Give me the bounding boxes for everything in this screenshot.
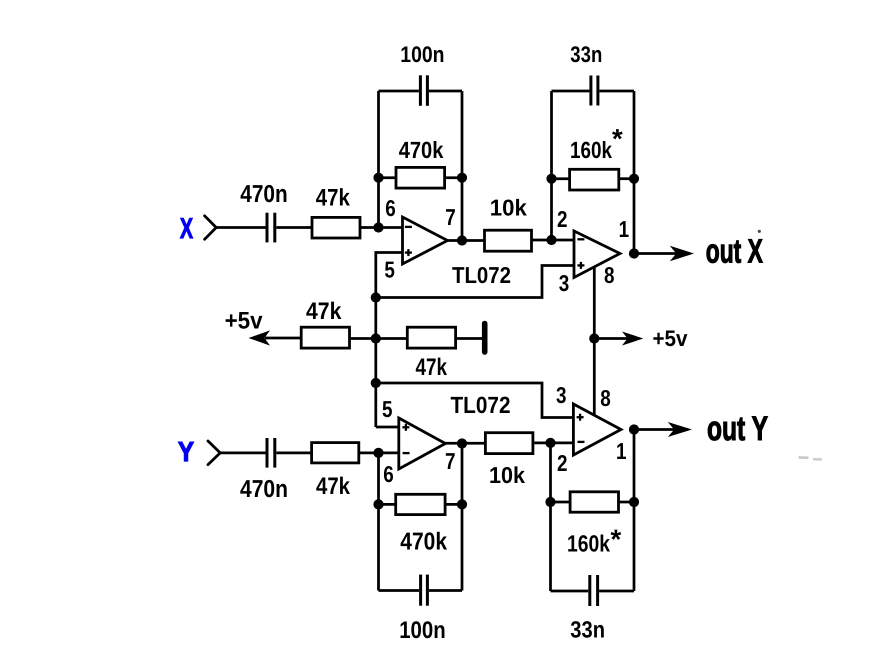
wire C 470n to R 47k (Y): [276, 452, 311, 455]
svg-text:Y: Y: [178, 436, 194, 467]
svg-text:33n: 33n: [570, 617, 605, 643]
wire +5v right arrow shaft: [594, 337, 628, 340]
resistor 470k (top feedback): [396, 167, 445, 188]
feedback column right (U2B) wire: [633, 430, 636, 592]
wire 100n bottom left segment: [379, 589, 420, 592]
node center bus +5v junction: [371, 333, 381, 343]
svg-text:100n: 100n: [400, 42, 444, 67]
node 160k right junction: [629, 174, 639, 184]
svg-text:out Y: out Y: [707, 410, 768, 448]
power +5v arrow right: [622, 332, 643, 346]
arrow out X: [670, 246, 694, 261]
wire U1A output to R 10k: [448, 239, 485, 242]
wire bus to U2A pin 5: [376, 426, 399, 429]
minus mark U2A: [403, 452, 410, 454]
node +5v junction right: [589, 333, 599, 343]
node 160k bottom left junction: [545, 497, 555, 507]
feedback column left (U1B) wire: [550, 91, 553, 240]
svg-text:10k: 10k: [489, 462, 525, 488]
svg-text:+5v: +5v: [225, 308, 264, 335]
svg-text:470n: 470n: [240, 476, 288, 503]
resistor 47k (mid left): [301, 327, 349, 348]
wire R 47k to op-amp U2A pin 6: [359, 452, 399, 455]
wire bus to U2B pin 3 route: [376, 383, 574, 418]
wire 470k bottom row right: [445, 503, 462, 506]
svg-text:160k: 160k: [570, 137, 613, 163]
svg-text:33n: 33n: [570, 42, 602, 67]
svg-text:470k: 470k: [400, 528, 447, 555]
wire 47k to center bus node: [350, 337, 408, 340]
node U1A inverting input junction: [373, 222, 383, 232]
svg-text:100n: 100n: [399, 617, 446, 644]
svg-text:7: 7: [445, 448, 456, 474]
svg-text:160k: 160k: [567, 531, 611, 557]
node U2A inverting input junction: [373, 448, 383, 458]
wire 470k row right: [445, 176, 462, 179]
wire bus to U1B pin 3 route: [376, 266, 574, 298]
wire 470k bottom row left: [379, 503, 396, 506]
node U1B inverting input junction: [546, 235, 556, 245]
input connector Y: [208, 441, 220, 465]
wire 100n bottom right segment: [429, 589, 462, 592]
node 160k left junction: [546, 174, 556, 184]
wire C 470n to R 47k: [276, 226, 312, 229]
wire 160k row right: [619, 177, 634, 180]
wire 470k row left: [379, 176, 397, 179]
plus mark U1B: [577, 262, 584, 269]
svg-text:1: 1: [619, 216, 630, 242]
wire Y input to C 470n: [219, 452, 266, 455]
svg-text:TL072: TL072: [452, 262, 511, 288]
power +5v arrow left: [249, 330, 271, 345]
svg-text:10k: 10k: [490, 194, 527, 220]
svg-text:470n: 470n: [240, 181, 287, 208]
node 160k bottom right junction: [629, 497, 639, 507]
wire 33n bottom right segment: [599, 590, 634, 593]
svg-text:2: 2: [557, 450, 568, 476]
node 470k bottom right junction: [457, 499, 467, 509]
wire 160k bottom row left: [551, 501, 571, 504]
svg-text:X: X: [180, 213, 193, 245]
svg-text:5: 5: [382, 396, 393, 422]
svg-text:+5v: +5v: [653, 326, 688, 351]
wire 100n top left segment: [379, 90, 419, 93]
wire R 10k to U2B pin 2: [533, 442, 574, 445]
minus mark U2B: [578, 441, 585, 443]
minus mark U1B: [577, 238, 584, 240]
feedback column left (U2B) wire: [549, 443, 552, 591]
svg-text:out X: out X: [706, 233, 763, 270]
svg-text:6: 6: [383, 461, 394, 487]
resistor 47k (mid right): [407, 327, 455, 348]
artifact dash 1: [798, 456, 808, 459]
resistor 47k (X input): [312, 217, 360, 238]
node U1B output junction: [629, 248, 639, 258]
capacitor 470n (Y input): [267, 438, 275, 468]
plus mark U1A: [405, 249, 412, 256]
svg-text:6: 6: [385, 195, 396, 221]
svg-text:*: *: [611, 524, 622, 555]
svg-text:2: 2: [557, 206, 568, 232]
capacitor 470n (X input): [267, 213, 275, 243]
node 470k right junction: [457, 173, 467, 183]
node junction bus/pin3 route: [371, 292, 381, 302]
wire 47k to terminal bar: [456, 337, 482, 340]
wire center bus vertical: [374, 298, 377, 428]
capacitor 33n (bottom feedback): [590, 575, 598, 606]
resistor 10k (top): [485, 230, 532, 251]
svg-text:TL072: TL072: [451, 392, 511, 418]
capacitor 33n (top feedback): [591, 76, 598, 106]
wire 33n top right segment: [599, 90, 634, 93]
minus mark U1A: [405, 226, 412, 228]
input connector X: [205, 216, 217, 240]
plus mark U2B: [577, 414, 584, 421]
artifact dash 2: [813, 458, 822, 461]
node 470k bottom left junction: [373, 499, 383, 509]
feedback column left (U2A) wire: [377, 453, 380, 591]
arrow out Y: [668, 422, 692, 437]
node U1A output junction: [457, 235, 467, 245]
wire 160k bottom row right: [619, 501, 635, 504]
wire X input to C 470n: [215, 226, 266, 229]
svg-text:3: 3: [556, 382, 567, 408]
wire R 47k to op-amp U1A pin 6: [360, 226, 403, 229]
feedback column right (U2A) wire: [461, 444, 464, 591]
resistor 160k (top feedback): [570, 169, 619, 190]
terminal bar electrode: [482, 324, 488, 353]
capacitor 100n (bottom feedback): [421, 575, 428, 606]
node junction bus/pin3 lower route: [371, 378, 381, 388]
wire U2B output to out Y arrow: [634, 428, 675, 431]
op-amp U1A (TL072 top-left): [403, 217, 448, 264]
svg-text:47k: 47k: [316, 185, 351, 212]
op-amp U1B (TL072 top-right): [574, 231, 620, 278]
artifact dot: [758, 230, 761, 233]
svg-text:5: 5: [384, 257, 395, 283]
op-amp U2A (TL072 bottom-left): [399, 418, 446, 469]
wire R 10k to U1B pin 2: [532, 239, 575, 242]
node 470k left junction: [373, 173, 383, 183]
wire U1B pin 8 down: [593, 267, 596, 339]
feedback column right (U1A) wire: [461, 91, 464, 241]
wire 160k row left: [552, 177, 570, 180]
wire U2A output to R 10k (bottom): [445, 442, 485, 445]
feedback column left (U1A) wire: [377, 91, 380, 228]
svg-text:8: 8: [604, 262, 615, 288]
wire U1B output to out X arrow: [634, 252, 677, 255]
plus mark U2A: [402, 424, 409, 431]
wire U1A pin5 (+) to center bus: [376, 253, 403, 298]
svg-text:470k: 470k: [399, 137, 444, 163]
svg-text:47k: 47k: [306, 298, 342, 325]
svg-text:*: *: [612, 123, 623, 154]
capacitor 100n (top feedback): [420, 75, 427, 106]
svg-text:8: 8: [600, 385, 611, 411]
resistor 470k (bottom feedback): [396, 494, 445, 514]
node U2B output junction: [629, 424, 639, 434]
svg-text:3: 3: [559, 270, 570, 296]
wire U2B pin 8 up: [593, 339, 596, 419]
node U2A output junction: [457, 438, 467, 448]
resistor 10k (bottom): [485, 433, 533, 454]
feedback column right (U1B) wire: [633, 91, 636, 254]
wire 33n top left segment: [552, 90, 590, 93]
svg-text:1: 1: [616, 438, 627, 464]
resistor 160k (bottom feedback): [570, 492, 618, 512]
node U2B inverting input junction: [545, 438, 555, 448]
wire 33n bottom left segment: [551, 590, 589, 593]
op-amp U2B (TL072 bottom-right): [573, 404, 621, 455]
svg-text:47k: 47k: [416, 354, 448, 381]
wire +5v left arrow shaft: [265, 337, 301, 340]
svg-text:47k: 47k: [316, 473, 351, 500]
svg-text:7: 7: [445, 204, 456, 230]
resistor 47k (Y input): [312, 443, 359, 463]
wire 100n top right segment: [429, 90, 462, 93]
